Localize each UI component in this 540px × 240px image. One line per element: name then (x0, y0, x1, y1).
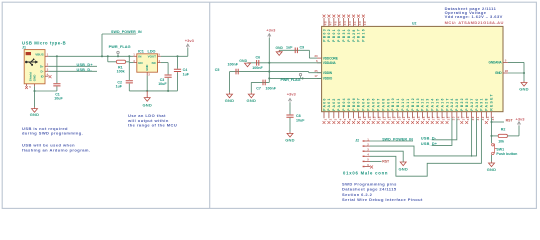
svg-text:10k: 10k (498, 139, 504, 143)
svg-text:PA00: PA00 (322, 97, 326, 110)
U2 bottom pin 22 PA11 (406, 98, 411, 124)
svg-text:9: 9 (353, 118, 357, 120)
U2 top pin 41 PA28 (no connect) (352, 15, 357, 42)
ground GND (J2) (398, 162, 408, 172)
svg-text:16: 16 (378, 116, 382, 120)
svg-text:43: 43 (348, 21, 352, 25)
svg-text:GND: GND (285, 138, 295, 143)
svg-text:1uF: 1uF (116, 84, 123, 88)
U2 bottom pin 42 PA31 (480, 97, 485, 120)
net label USB_D+ (right) (421, 118, 452, 146)
U2 bottom pin 31 PA16 (440, 97, 445, 124)
U2 bottom pin 11 PA08 (381, 97, 386, 124)
svg-text:VDDANA: VDDANA (323, 61, 337, 65)
svg-text:PA28: PA28 (485, 97, 489, 110)
svg-text:17: 17 (314, 74, 318, 78)
svg-text:Section 6.2.2: Section 6.2.2 (342, 192, 373, 197)
svg-text:C7: C7 (256, 86, 261, 90)
svg-text:+3v3: +3v3 (287, 91, 297, 96)
IC1 pin 5 VOUT (158, 53, 161, 57)
note: use an LDO (127, 113, 177, 128)
resistor R1 100k (108, 56, 130, 73)
wire LDO output to +3v3 (161, 48, 188, 57)
svg-text:38: 38 (466, 116, 470, 120)
svg-text:PA11: PA11 (406, 98, 410, 111)
svg-text:GND: GND (225, 98, 235, 103)
note: 01x06 male conn (343, 171, 388, 176)
svg-text:PB04: PB04 (342, 97, 346, 111)
svg-text:6: 6 (348, 118, 352, 120)
svg-text:PA25: PA25 (455, 97, 459, 110)
svg-text:U2: U2 (412, 22, 416, 26)
svg-text:GND: GND (142, 103, 152, 108)
U2 bottom pin 13 PA04 (362, 97, 367, 124)
IC1 pin 3 EN (133, 59, 137, 63)
power flag PWR_FLAG (left) (109, 45, 131, 56)
svg-text:GND: GND (487, 167, 497, 172)
J2 pin 4 (363, 153, 370, 157)
capacitor C2 1uF (116, 63, 133, 91)
svg-text:100nF: 100nF (252, 66, 263, 70)
svg-text:5: 5 (343, 118, 347, 120)
svg-text:19: 19 (392, 116, 396, 120)
capacitor C8 10uF (286, 103, 305, 132)
svg-text:USB_D+: USB_D+ (77, 63, 94, 67)
svg-text:PA07: PA07 (376, 97, 380, 110)
svg-text:PB11: PB11 (396, 97, 400, 111)
svg-text:Vdd range: 1.62V – 3.63V: Vdd range: 1.62V – 3.63V (445, 14, 503, 19)
svg-text:PA16: PA16 (440, 97, 444, 110)
svg-text:GND: GND (145, 65, 149, 71)
svg-text:10uF: 10uF (296, 118, 305, 122)
svg-text:SW1: SW1 (496, 148, 504, 152)
U2 bottom pin 10 PB07 (357, 97, 362, 124)
svg-text:PA02: PA02 (332, 97, 336, 110)
svg-text:46: 46 (333, 21, 337, 25)
svg-text:13: 13 (363, 116, 367, 120)
svg-text:PWR_FLAG: PWR_FLAG (281, 78, 301, 82)
net label USB_D- (right) (421, 118, 457, 140)
svg-text:flashing an Arduino program.: flashing an Arduino program. (22, 148, 90, 153)
svg-text:PB07: PB07 (357, 97, 361, 111)
capacitor C7 100nF (251, 80, 276, 93)
MCU U2 ATSAMD21 (322, 22, 503, 112)
svg-text:43: 43 (486, 116, 490, 120)
capacitor C3 10uF (158, 63, 172, 91)
svg-text:PB23: PB23 (465, 97, 469, 111)
svg-text:25: 25 (422, 116, 426, 120)
ground GND (C8) (285, 132, 295, 143)
capacitor C5 100nF (215, 63, 322, 93)
svg-text:PA05: PA05 (367, 97, 371, 110)
J2 pin 6 (363, 163, 370, 167)
svg-text:PB10: PB10 (391, 97, 395, 111)
U2 bottom pin 28 PA15 (435, 97, 440, 124)
svg-text:PWR_FLAG: PWR_FLAG (109, 45, 131, 49)
svg-text:PA06: PA06 (372, 97, 376, 110)
svg-text:SWD Programming pins: SWD Programming pins (342, 181, 397, 186)
J1 pin 2 D+ (45, 63, 49, 67)
U2 bottom pin 38 PB23 (465, 97, 470, 124)
U2 top pin 47 PB02 (no connect) (327, 15, 332, 42)
U2 bottom pin 12 PA09 (386, 97, 391, 124)
svg-text:GND: GND (495, 71, 502, 75)
svg-text:27: 27 (432, 116, 436, 120)
J1 pin 3 D- (45, 68, 49, 72)
IC1 pin 1 IN (133, 53, 137, 57)
svg-text:1uF: 1uF (183, 72, 190, 76)
U2 pin 28 GND (495, 69, 508, 75)
svg-text:PA30: PA30 (475, 97, 479, 110)
svg-text:10: 10 (358, 116, 362, 120)
U2 top pin 43 PB30 (no connect) (347, 15, 352, 42)
svg-text:28: 28 (437, 116, 441, 120)
svg-text:PA17: PA17 (445, 97, 449, 110)
svg-text:RESET: RESET (490, 93, 494, 111)
power +3v3 (C8 branch) (287, 91, 297, 102)
svg-text:VDDIN: VDDIN (323, 71, 333, 75)
svg-text:PA12: PA12 (421, 97, 425, 110)
svg-text:3: 3 (333, 118, 337, 120)
U2 bottom pin 3 PA02 (332, 97, 337, 124)
svg-text:J2: J2 (355, 138, 359, 142)
note: usb not required (22, 126, 83, 136)
svg-text:GND: GND (247, 98, 257, 103)
connector J1 USB Micro type-B (22, 40, 66, 83)
U2 pin 5 GNDANA (489, 59, 508, 65)
ground GND (C5) (225, 93, 235, 103)
svg-text:GND: GND (398, 167, 408, 172)
svg-text:21: 21 (402, 116, 406, 120)
svg-text:100k: 100k (117, 69, 125, 73)
svg-text:GND: GND (30, 112, 40, 117)
J1 pin 5 GND and shield pins (25, 84, 34, 91)
power +3v3 (left) (185, 38, 195, 48)
svg-text:during SWD programming.: during SWD programming. (22, 131, 83, 136)
svg-text:D-: D- (41, 70, 44, 74)
wire J2 pin3 to ground (370, 151, 403, 162)
svg-text:PB31: PB31 (342, 28, 346, 42)
svg-text:PB12: PB12 (411, 97, 415, 111)
svg-text:VOUT: VOUT (148, 55, 157, 59)
ground GND right of MCU (519, 81, 529, 92)
net label USB_D+ (48, 63, 97, 67)
U2 bottom pin 6 PB05 (347, 97, 352, 124)
svg-text:GND: GND (239, 59, 247, 63)
U2 bottom pin 25 PA12 (421, 97, 426, 124)
svg-text:PB03: PB03 (322, 28, 326, 42)
svg-text:PB02: PB02 (327, 28, 331, 42)
svg-text:J1: J1 (22, 46, 26, 50)
svg-text:100nF: 100nF (228, 63, 239, 67)
svg-text:40: 40 (358, 21, 362, 25)
svg-text:+3v3: +3v3 (515, 116, 525, 121)
svg-text:PA01: PA01 (327, 97, 331, 110)
note: datasheet header (445, 6, 503, 19)
svg-text:26: 26 (427, 116, 431, 120)
svg-text:PA15: PA15 (435, 97, 439, 110)
svg-text:RST: RST (382, 160, 390, 164)
svg-text:PB00: PB00 (337, 28, 341, 42)
net label RST (J2 pin5) (370, 160, 390, 164)
svg-text:Serial Wire Debug Interface Pi: Serial Wire Debug Interface Pinout (342, 197, 423, 202)
U2 bottom pin 20 PB11 (396, 97, 401, 124)
svg-text:Push button: Push button (496, 152, 517, 156)
capacitor C4 1uF (174, 56, 190, 91)
U2 top pin 40 PB17 (no connect) (357, 15, 362, 42)
svg-text:28: 28 (505, 69, 509, 73)
svg-text:GND: GND (33, 74, 37, 82)
svg-text:31: 31 (442, 116, 446, 120)
U2 bottom pin 16 PA07 (376, 97, 381, 124)
U2 bottom pin 26 PA13 (426, 97, 431, 124)
power +3v3 (reset pullup) (515, 116, 525, 135)
capacitor C1 10uF (53, 56, 63, 100)
svg-text:22: 22 (407, 116, 411, 120)
svg-text:GND: GND (276, 46, 284, 50)
svg-text:PA08: PA08 (381, 97, 385, 110)
U2 bottom pin 9 PB06 (352, 97, 357, 124)
svg-text:23: 23 (412, 116, 416, 120)
wire J2 pin4 SWDIO (370, 118, 481, 176)
ground GND (C9) (276, 46, 284, 56)
U2 top pin 48 PB03 (no connect) (322, 15, 327, 42)
svg-text:PA04: PA04 (362, 97, 366, 110)
svg-text:EN: EN (138, 61, 142, 65)
ground GND (SW1) (487, 162, 497, 173)
svg-text:VDDIO: VDDIO (323, 76, 333, 80)
U2 pin 17 VDDIO (314, 74, 332, 80)
capacitor C6 100nF (248, 55, 322, 70)
svg-text:VDDCORE: VDDCORE (323, 56, 338, 60)
ground GND below LDO (142, 91, 152, 108)
svg-text:+3v3: +3v3 (185, 38, 195, 43)
wire RESET net (490, 118, 504, 143)
wire J2 pin2 SWCLK (370, 118, 477, 157)
svg-text:01x06 Male conn: 01x06 Male conn (343, 171, 388, 176)
svg-text:PA24: PA24 (450, 97, 454, 110)
ground GND (C6) (239, 59, 250, 67)
regulator IC1 LDO (137, 50, 158, 73)
U2 bottom pin 1 PA00 (322, 97, 327, 124)
resistor R2 10k (492, 128, 520, 144)
svg-text:USB_D-: USB_D- (77, 68, 93, 72)
U2 bottom pin 19 PB10 (391, 97, 396, 124)
J2 pin 1 (363, 137, 370, 141)
svg-text:10uF: 10uF (158, 82, 167, 86)
wire gnd bus under LDO (129, 90, 177, 92)
svg-text:1: 1 (324, 118, 328, 120)
U2 bottom pin 15 PA06 (372, 97, 377, 124)
svg-text:the range of the MCU: the range of the MCU (128, 123, 177, 128)
wire J1 gnd bus (33, 90, 56, 107)
svg-text:PA10: PA10 (401, 97, 405, 110)
U2 bottom pin 43 PA28 (485, 97, 490, 124)
svg-text:PA14: PA14 (431, 97, 435, 110)
svg-text:11: 11 (383, 116, 387, 120)
svg-text:PB05: PB05 (347, 97, 351, 111)
note: swd programming pins (342, 181, 423, 202)
svg-text:MCU: ATSAMD21G18A-AU: MCU: ATSAMD21G18A-AU (445, 20, 504, 25)
U2 bottom pin 34 PA25 (455, 97, 460, 120)
ground GND (C7) (247, 93, 257, 103)
svg-text:PB17: PB17 (357, 28, 361, 42)
svg-text:20: 20 (397, 116, 401, 120)
J2 pin 6 no connect (370, 166, 373, 169)
svg-text:PB16: PB16 (362, 28, 366, 42)
svg-text:PB13: PB13 (416, 97, 420, 111)
wire GNDANA/GND to ground (508, 62, 525, 81)
power +3v3 rail top (266, 28, 276, 83)
net label SWD_POWER_IN (right) (370, 138, 413, 142)
U2 bottom pin 32 PA17 (445, 97, 450, 124)
svg-text:30: 30 (314, 54, 318, 58)
svg-text:GND: GND (519, 87, 529, 92)
svg-text:12: 12 (387, 116, 391, 120)
svg-text:PB06: PB06 (352, 97, 356, 111)
U2 bottom pin 24 PB13 (416, 97, 421, 124)
svg-text:39: 39 (363, 21, 367, 25)
svg-text:35: 35 (314, 69, 318, 73)
wire EN node (129, 56, 133, 62)
U2 pin 35 VDDIN (314, 69, 332, 75)
svg-text:GNDANA: GNDANA (489, 61, 503, 65)
J1 pin 1 VBUS (45, 53, 49, 57)
svg-text:PA03: PA03 (337, 97, 341, 110)
svg-text:PA28: PA28 (352, 28, 356, 41)
ground GND below J1 (30, 107, 40, 117)
svg-text:R2: R2 (501, 128, 506, 132)
svg-text:USB_D+: USB_D+ (421, 142, 438, 146)
U2 bottom pin 14 PA05 (367, 97, 372, 124)
U2 bottom pin 5 PB04 (342, 97, 347, 124)
svg-text:14: 14 (368, 116, 372, 120)
svg-text:PA13: PA13 (426, 97, 430, 110)
U2 bottom pin 2 PA01 (327, 97, 332, 124)
svg-text:10uF: 10uF (54, 97, 63, 101)
U2 pin 30 VDDCORE (314, 54, 337, 60)
wire VDDIO with power flag (269, 73, 321, 82)
IC1 pin 2 GND (147, 72, 150, 91)
svg-text:C5: C5 (215, 68, 220, 72)
U2 top pin 44 PB31 (no connect) (342, 15, 347, 42)
svg-text:4: 4 (338, 118, 342, 120)
note: usb used when flashing (22, 143, 90, 153)
svg-text:C6: C6 (256, 55, 261, 59)
svg-text:SWD_POWER_IN: SWD_POWER_IN (111, 30, 142, 34)
J1 pin 4 ID (no connect) (45, 72, 52, 78)
svg-text:PA27: PA27 (470, 97, 474, 110)
U2 bottom pin 23 PB12 (411, 97, 416, 124)
U2 bottom pin 39 PA27 (470, 97, 475, 120)
svg-text:Datasheet page 24/1115: Datasheet page 24/1115 (342, 187, 397, 192)
svg-text:47: 47 (328, 21, 332, 25)
U2 top pin 46 PB01 (no connect) (332, 15, 337, 42)
svg-text:RST: RST (506, 118, 514, 122)
U2 bottom pin 37 PB22 (460, 97, 465, 124)
svg-text:D+: D+ (40, 65, 44, 69)
J2 pin 5 (363, 158, 370, 162)
svg-text:PA31: PA31 (480, 97, 484, 110)
wire VBUS main (48, 55, 133, 57)
svg-text:USB Micro type-B: USB Micro type-B (22, 40, 66, 45)
svg-text:45: 45 (338, 21, 342, 25)
J2 pin 2 (363, 142, 370, 146)
connector J2 01x06 (355, 138, 359, 142)
svg-text:SWD_POWER_IN: SWD_POWER_IN (382, 138, 413, 142)
svg-text:C9: C9 (300, 46, 305, 50)
svg-text:LDO: LDO (148, 50, 156, 54)
svg-text:PA09: PA09 (386, 97, 390, 110)
U2 top pin 45 PB00 (no connect) (337, 15, 342, 42)
svg-text:VBUS: VBUS (35, 52, 43, 56)
U2 bottom pin 21 PA10 (401, 97, 406, 124)
U2 bottom pin 45 RESET (490, 93, 495, 120)
svg-text:32: 32 (447, 116, 451, 120)
J2 pin 3 (363, 148, 370, 152)
svg-text:PB01: PB01 (332, 28, 336, 42)
svg-text:41: 41 (353, 21, 357, 25)
U2 bottom pin 33 PA24 (450, 97, 455, 120)
svg-text:IN: IN (138, 55, 141, 59)
svg-text:USB_D-: USB_D- (421, 136, 437, 140)
svg-text:IC1: IC1 (138, 50, 144, 54)
switch SW1 push button (492, 144, 518, 162)
net label RST (reset) (506, 118, 514, 122)
capacitor C9 1uF (VDDCORE) (279, 46, 317, 59)
svg-text:PB30: PB30 (347, 28, 351, 42)
svg-text:1uF: 1uF (286, 46, 293, 50)
svg-text:15: 15 (373, 116, 377, 120)
IC1 pin 4 NC (158, 59, 161, 63)
svg-text:+3v3: +3v3 (266, 28, 276, 33)
U2 bottom pin 41 PA30 (475, 97, 480, 120)
svg-text:PB22: PB22 (460, 97, 464, 111)
svg-text:37: 37 (461, 116, 465, 120)
U2 top pin 39 PB16 (no connect) (362, 15, 367, 42)
note: MCU part number (445, 20, 504, 25)
svg-text:ID: ID (41, 74, 44, 78)
svg-text:44: 44 (343, 21, 347, 25)
U2 bottom pin 4 PA03 (337, 97, 342, 124)
U2 bottom pin 27 PA14 (431, 97, 436, 124)
net label USB_D- (48, 68, 97, 72)
svg-text:24: 24 (417, 116, 421, 120)
svg-text:2: 2 (328, 118, 332, 120)
net label SWD_POWER_IN (left) (102, 30, 142, 56)
svg-text:100nF: 100nF (266, 86, 277, 90)
svg-text:48: 48 (324, 21, 328, 25)
U2 pin 6 VDDANA (316, 59, 336, 65)
